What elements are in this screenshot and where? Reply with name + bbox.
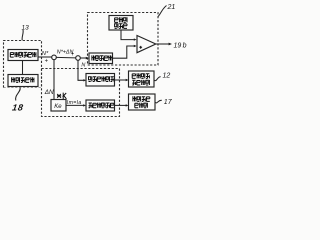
svg-text:19: 19 — [174, 43, 182, 50]
svg-text:N: N — [81, 63, 85, 69]
box B: lower-left block inside 13 — [8, 75, 38, 87]
box C: speed detector — [86, 74, 115, 87]
small mark near branch above Ke — [57, 93, 66, 99]
wire C to E — [115, 79, 127, 81]
svg-text:N*: N* — [42, 51, 49, 57]
squiggle leader to label 12 — [155, 77, 161, 81]
box E: frequency/phase block — [129, 71, 155, 87]
svg-text:+: + — [45, 58, 49, 64]
leader line to label 13 — [22, 30, 23, 41]
svg-text:13: 13 — [22, 25, 30, 32]
wire: PID output up to comparator - input — [113, 46, 135, 58]
squiggle leader to label 17 — [156, 100, 162, 103]
comparator output wire with arrow to 19 — [156, 43, 169, 45]
bottom-middle dashed block (microcomputer lower section) — [42, 69, 120, 117]
svg-text:+: + — [71, 52, 75, 58]
wire: box A output to summing node 1 — [38, 56, 52, 58]
branch wire: node 1 down to Ke box — [53, 60, 55, 100]
summing node 2 — [76, 56, 81, 61]
wire D to F — [115, 104, 127, 106]
wire Ke box to box D with label Im=Ia — [66, 104, 84, 106]
box F: voltage controlled oscillator block — [129, 94, 156, 110]
wire: node 1 to node 2 — [56, 56, 75, 59]
leader line to label 21 — [158, 6, 167, 17]
box D: current command block — [86, 100, 115, 111]
svg-text:ΔN: ΔN — [44, 89, 54, 96]
leader line to label 18 — [16, 88, 21, 101]
svg-text:Ke: Ke — [54, 104, 62, 110]
summing node 1 — [52, 55, 57, 60]
Ke gain box — [51, 100, 66, 112]
wire: triangle-wave box down then right to comparator + input — [121, 30, 134, 40]
svg-text:12: 12 — [163, 73, 171, 80]
svg-text:17: 17 — [164, 99, 173, 106]
triangular wave generator box — [109, 16, 133, 31]
top-right dashed block 21 (PWM comparator section) — [88, 13, 159, 66]
wire: node 2 to PID box — [80, 57, 86, 59]
feedback wire: node 2 down then right into box C — [78, 60, 84, 80]
svg-text:Im=Ia: Im=Ia — [67, 100, 82, 106]
box A: top-left block inside 13 — [8, 50, 38, 61]
wire box A to box B — [22, 61, 24, 75]
svg-text:b: b — [183, 43, 187, 50]
left dashed block 13 (power converter unit) — [4, 41, 42, 88]
block diagram (patent figure) — [0, 0, 190, 120]
svg-text:21: 21 — [167, 4, 176, 11]
svg-text:18: 18 — [11, 103, 24, 113]
plus sign inside comparator at lower input — [139, 46, 142, 49]
PID operation box — [89, 53, 113, 64]
comparator (op-amp triangle) — [137, 36, 156, 53]
